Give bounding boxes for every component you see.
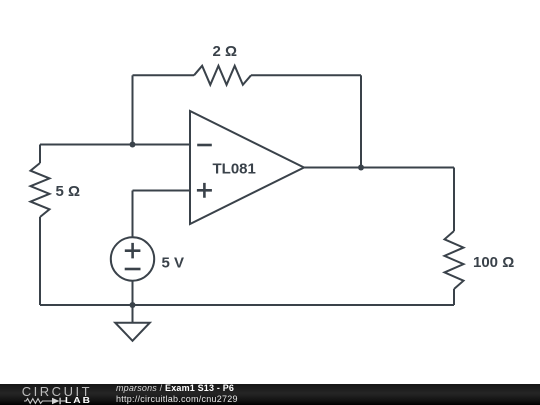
resistor R3 100 Ohm (right vertical) [445,231,464,289]
svg-text:5 Ω: 5 Ω [56,183,81,200]
footer watermark bar [0,384,540,405]
ground stem [132,305,134,323]
ground symbol triangle [115,323,150,341]
wire: top horizontal left of R2 [133,74,195,76]
op-amp inverting input minus sign [197,144,212,147]
wire: feedback left vertical [132,75,134,144]
voltage source plus sign [125,243,141,259]
voltage source V1 circle [111,237,154,280]
svg-text:2 Ω: 2 Ω [213,43,238,60]
wire: non-inverting input horizontal [133,190,191,192]
wire: right rail lower segment [453,289,455,305]
wire: output of op-amp to right rail [304,167,454,169]
footer url line [116,394,238,404]
wire: top-left horizontal to inverting input [40,144,190,146]
footer author / title line [116,383,234,393]
wire: top horizontal right of R2 [251,74,361,76]
output node junction dot [358,165,364,171]
resistor R1 5 Ohm (left vertical) [31,163,50,217]
voltage source minus sign [125,268,141,271]
wire: bottom rail [40,304,454,306]
wire: left rail bottom segment [39,217,41,305]
op-amp non-inverting input plus sign [197,183,212,198]
wire: non-inverting vertical down to source [132,191,134,238]
svg-text:TL081: TL081 [213,161,256,178]
node A junction dot [130,142,136,148]
svg-text:5 V: 5 V [162,254,185,271]
wire: right rail upper segment [453,168,455,232]
CircuitLab logo resistor-diode glyph [23,397,67,405]
wire: feedback right vertical [360,75,362,167]
wire: source bottom to bottom rail [132,281,134,306]
CircuitLab logo text CIRCUIT [22,385,92,398]
CircuitLab logo text LAB [65,396,92,405]
wire: left rail top segment [39,145,41,164]
resistor R2 2 Ohm (feedback, horizontal) [194,66,251,85]
svg-text:100 Ω: 100 Ω [473,254,514,271]
bottom node junction dot [130,302,136,308]
op-amp U1 triangle [190,111,304,224]
